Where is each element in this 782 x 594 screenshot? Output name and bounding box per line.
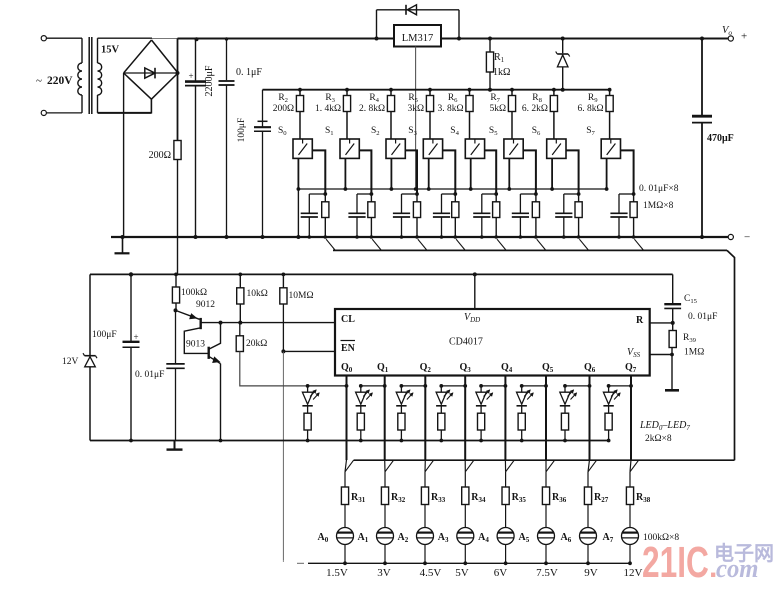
wire bundle diagonal bottom 7 [630, 460, 639, 472]
resistor R2 200Ω [298, 88, 302, 92]
wire bridge plus down to 200 ohm resistor [177, 73, 179, 141]
wire Q5 output column [545, 376, 547, 386]
wire 20k to LED0 line [240, 352, 308, 386]
svg-text:0. 01μF: 0. 01μF [688, 312, 717, 322]
wire Q4 output column [504, 376, 506, 386]
resistor 10M [282, 273, 286, 277]
bridge rectifier D1-D4 [152, 40, 179, 73]
switch S4 [465, 139, 484, 158]
capacitor 100uF top [262, 90, 264, 127]
LED1 [360, 386, 362, 392]
resistor R8 6.2kΩ [552, 88, 556, 92]
wire bundle diagonal bottom 0 [345, 460, 354, 472]
resistor R4 2.8kΩ [389, 88, 393, 92]
regulator A0 [337, 528, 354, 545]
transformer T1 primary winding [81, 38, 83, 63]
wire column to R35 [504, 460, 506, 472]
switch S7 [601, 139, 620, 158]
resistor 1M number 2 [416, 194, 418, 202]
svg-text:3V: 3V [377, 567, 391, 579]
wire Q2 output column [424, 376, 426, 386]
capacitor 0.01uF number 7 [619, 193, 634, 195]
wire A5 to bottom rail [545, 545, 547, 564]
resistor R6 3.8kΩ [468, 88, 472, 92]
resistor 100k [174, 273, 178, 277]
wire R35 to A4 [505, 505, 507, 528]
resistor 200 ohm [174, 141, 181, 160]
output terminal Vo+ [728, 36, 733, 41]
wire switch S2 common to ADJ rail [390, 158, 392, 189]
wire divider top rail [263, 89, 611, 91]
wire LED4 connector [481, 385, 505, 387]
regulator A1 [377, 528, 394, 545]
capacitor 0.01uF number 3 [442, 193, 456, 195]
svg-text:10MΩ: 10MΩ [289, 291, 314, 301]
wire bundle bus top [333, 249, 727, 251]
switch S3 [423, 139, 442, 158]
svg-text:9013: 9013 [186, 340, 205, 350]
svg-text:200Ω: 200Ω [273, 104, 294, 114]
regulator A2 [417, 528, 434, 545]
resistor R9 6.8kΩ [608, 88, 612, 92]
svg-text:9V: 9V [584, 567, 598, 579]
wire R36 to A5 [545, 505, 547, 528]
zener diode 12V [85, 355, 96, 357]
wire bundle diagonal top 6 [579, 239, 588, 250]
wire EN line [283, 350, 335, 352]
switch S2 [386, 139, 405, 158]
wire bundle diagonal top 4 [497, 239, 506, 250]
svg-text:5kΩ: 5kΩ [489, 104, 506, 114]
wire R32 to A1 [384, 505, 386, 528]
wire Q1 output column [384, 376, 386, 386]
switch S5 [504, 139, 523, 158]
wire bundle diagonal top 5 [537, 239, 546, 250]
capacitor 0.01uF number 2 [402, 193, 418, 195]
wire A7 to bottom rail [629, 545, 631, 564]
capacitor 0.01uF number 1 [357, 193, 371, 195]
wire Q7 output column [630, 376, 632, 386]
wire switch S4 common to ADJ rail [470, 158, 472, 189]
wire column to R38 [630, 460, 631, 472]
svg-text:com: com [716, 554, 759, 583]
wire switch S7 output [621, 150, 634, 194]
ground symbol at bridge minus [121, 235, 125, 239]
regulator A3 [457, 528, 474, 545]
transistor Q1 9012 [174, 308, 178, 312]
wire bridge plus up to output rail [177, 39, 179, 74]
resistor 2k number 7 [608, 406, 610, 413]
svg-text:−: − [744, 232, 750, 244]
regulator U1 LM317 [394, 25, 441, 47]
LED3 [440, 386, 442, 392]
wire switch S4 output [485, 150, 497, 194]
LED5 [521, 386, 523, 392]
wire VDD rail to C15 [672, 274, 674, 303]
wire R34 to A3 [464, 505, 466, 528]
svg-text:0. 01μF×8: 0. 01μF×8 [639, 184, 679, 194]
wire LED5 connector [522, 385, 546, 387]
wire switch S3 output [443, 150, 456, 194]
wire switch S6 output [566, 150, 579, 194]
capacitor 0.01uF number 5 [520, 193, 536, 195]
wire bundle diagonal top 0 [326, 239, 335, 250]
wire bundle diagonal bottom 3 [465, 460, 474, 472]
resistor R5 3kΩ [428, 88, 432, 92]
wire R27 to A6 [587, 505, 589, 528]
svg-text:12V: 12V [62, 357, 79, 367]
wire switch S5 common to ADJ rail [508, 158, 510, 189]
wire CL line [201, 322, 335, 324]
wire 200 ohm to VDD rail [177, 160, 179, 275]
resistor 2k number 4 [480, 406, 482, 413]
wire switch S1 common to ADJ rail [344, 158, 346, 189]
svg-text:4.5V: 4.5V [420, 567, 442, 579]
svg-text:100μF: 100μF [92, 330, 117, 340]
ground symbol lower [174, 441, 176, 449]
resistor 10k [238, 273, 242, 277]
wire A1 to bottom rail [384, 545, 386, 564]
wire switch S3 common to ADJ rail [428, 158, 430, 189]
wire A6 to bottom rail [587, 545, 589, 564]
wire bundle diagonal top 1 [372, 239, 381, 250]
LED7 [608, 386, 610, 392]
wire VDD pin [474, 274, 476, 309]
wire ADJ common rail [298, 188, 608, 190]
svg-text:2kΩ×8: 2kΩ×8 [645, 434, 672, 444]
diode D5 across LM317 [376, 10, 378, 39]
svg-text:5V: 5V [455, 567, 469, 579]
svg-text:~: ~ [36, 75, 42, 87]
wire column to R36 [545, 460, 547, 472]
capacitor 470uF [701, 39, 703, 116]
LED2 [400, 386, 402, 392]
wire LED7 connector [609, 385, 631, 387]
svg-text:3kΩ: 3kΩ [407, 104, 424, 114]
resistor R35 [502, 487, 509, 505]
wire Q2 collector [209, 323, 221, 350]
wire bundle diagonal bottom 4 [506, 460, 515, 472]
resistor 1M number 3 [454, 194, 456, 202]
wire A4 to bottom rail [505, 545, 507, 564]
AC input terminal bottom [41, 110, 46, 115]
regulator A5 [538, 528, 555, 545]
resistor R27 [584, 487, 591, 505]
wire switch S1 output [359, 150, 371, 194]
switch S6 [547, 139, 566, 158]
resistor R39 1M [669, 331, 676, 348]
svg-text:12V: 12V [624, 567, 643, 579]
wire bundle diagonal bottom 1 [385, 460, 394, 472]
svg-text:1. 4kΩ: 1. 4kΩ [315, 104, 341, 114]
wire LED2 connector [401, 385, 425, 387]
svg-text:470μF: 470μF [707, 133, 734, 144]
AC input terminal top [41, 36, 46, 41]
resistor 20k [239, 323, 241, 336]
wire AC bottom to transformer [47, 112, 83, 114]
wire switch S5 output [523, 150, 536, 194]
svg-text:1.5V: 1.5V [326, 567, 348, 579]
wire switch S0 common to ADJ rail [297, 158, 299, 189]
capacitor 0.01uF number 4 [482, 193, 496, 195]
svg-text:1MΩ×8: 1MΩ×8 [643, 201, 674, 211]
wire bundle bus bottom [354, 459, 735, 461]
resistor 1M number 1 [370, 194, 372, 202]
resistor R38 [626, 487, 633, 505]
wire switch S0 output [312, 150, 325, 194]
wire bundle diagonal bottom 5 [546, 460, 555, 472]
wire A2 to bottom rail [424, 545, 426, 564]
wire AC top to transformer [47, 37, 83, 39]
svg-text:200Ω: 200Ω [149, 150, 171, 161]
wire bundle diagonal top 3 [456, 239, 465, 250]
svg-text:+: + [741, 31, 747, 43]
regulator A4 [497, 528, 514, 545]
LED4 [480, 386, 482, 392]
wire LED0 connector [308, 385, 347, 387]
svg-text:10kΩ: 10kΩ [247, 289, 268, 299]
wire Q6 output column [589, 376, 591, 386]
svg-text:6. 2kΩ: 6. 2kΩ [522, 104, 548, 114]
wire bundle diagonal top 7 [634, 239, 643, 250]
transformer T1 secondary winding [97, 38, 99, 63]
svg-text:220V: 220V [47, 75, 73, 87]
wire S0 common to 0V rail [297, 189, 299, 237]
svg-text:LED0–LED7: LED0–LED7 [639, 420, 690, 432]
wire Q3 output column [464, 376, 466, 386]
resistor R31 [341, 487, 348, 505]
resistor 1M number 5 [535, 194, 537, 202]
regulator A6 [580, 528, 597, 545]
wire ground rail lower [90, 440, 609, 442]
wire R31 to A0 [344, 505, 346, 528]
capacitor 0.01uF number 6 [564, 193, 579, 195]
wire R38 to A7 [629, 505, 631, 528]
transistor Q2 9013 [207, 347, 209, 359]
resistor R1 1k [489, 39, 491, 53]
resistor R3 1.4kΩ [345, 88, 349, 92]
wire column to R32 [384, 460, 386, 472]
svg-text:CL: CL [341, 314, 355, 325]
svg-text:2200μF: 2200μF [204, 65, 215, 96]
wire A3 to bottom rail [464, 545, 466, 564]
resistor 1M number 7 [633, 194, 635, 202]
LED6 [564, 386, 566, 392]
svg-text:20kΩ: 20kΩ [246, 339, 267, 349]
capacitor 2200uF [195, 39, 197, 82]
svg-text:6. 8kΩ: 6. 8kΩ [578, 104, 604, 114]
resistor R32 [381, 487, 388, 505]
resistor 1M number 4 [495, 194, 497, 202]
wire bundle diagonal bottom 6 [588, 460, 597, 472]
svg-text:LM317: LM317 [402, 33, 434, 44]
switch S1 [340, 139, 359, 158]
resistor R33 [421, 487, 428, 505]
resistor 1M number 6 [578, 194, 580, 202]
regulator A7 [622, 528, 639, 545]
wire bundle diagonal bottom 2 [425, 460, 434, 472]
svg-text:+: + [134, 332, 139, 342]
resistor 1M number 0 [324, 194, 326, 202]
wire switch S7 common to ADJ rail [606, 158, 608, 189]
svg-text:2. 8kΩ: 2. 8kΩ [359, 104, 385, 114]
wire VDD rail 12V [90, 273, 673, 275]
capacitor 0.01uF number 0 [309, 193, 325, 195]
resistor 2k number 0 [307, 406, 309, 413]
IC U2 CD4017 [335, 309, 650, 376]
wire bridge minus down [123, 73, 125, 237]
wire column to R27 [588, 460, 590, 472]
wire column to R34 [464, 460, 466, 472]
wire top rail Vout [178, 38, 395, 40]
wire left branch zener 12V [89, 274, 91, 355]
svg-text:15V: 15V [101, 45, 120, 56]
LED0 [307, 386, 309, 392]
wire LED3 connector [441, 385, 465, 387]
wire switch S2 output [405, 150, 417, 194]
wire switch S6 common to ADJ rail [551, 158, 553, 189]
wire LED6 connector [565, 385, 590, 387]
wire LED1 connector [361, 385, 385, 387]
wire LM317 ADJ [415, 47, 417, 190]
wire column to R31 [345, 460, 347, 472]
capacitor C15 0.01uF [664, 303, 681, 305]
wire secondary bottom to bridge [98, 112, 152, 114]
ground symbol VSS [671, 348, 673, 390]
svg-text:0. 1μF: 0. 1μF [236, 67, 262, 78]
resistor R7 5kΩ [510, 88, 514, 92]
wire Q0 output column [346, 376, 348, 386]
svg-text:EN: EN [341, 343, 356, 354]
svg-text:1MΩ: 1MΩ [684, 348, 704, 358]
svg-text:CD4017: CD4017 [449, 337, 483, 348]
capacitor 0.01uF lower [175, 310, 177, 363]
wire VSS pin [650, 354, 672, 356]
resistor 2k number 2 [400, 406, 402, 413]
svg-text:3. 8kΩ: 3. 8kΩ [437, 104, 463, 114]
svg-text:0. 01μF: 0. 01μF [135, 370, 164, 380]
svg-text:9012: 9012 [196, 300, 215, 310]
wire secondary top to bridge [98, 37, 153, 39]
resistor 2k number 3 [440, 406, 442, 413]
wire 0V rail [111, 236, 728, 238]
svg-text:21IC: 21IC [642, 538, 709, 587]
output terminal Vo- [728, 234, 733, 239]
wire Q1 collector to Q2 base [184, 328, 207, 354]
wire R33 to A2 [424, 505, 426, 528]
transformer T1 core [88, 37, 90, 114]
capacitor 0.1uF [226, 39, 228, 81]
zener diode D6 [562, 39, 564, 54]
wire column to R33 [424, 460, 426, 472]
svg-text:100μF: 100μF [237, 118, 247, 143]
resistor R34 [462, 487, 469, 505]
wire 10M to EN junction down to bottom rail [281, 349, 285, 353]
resistor 2k number 1 [360, 406, 362, 413]
wire bottom common rail [308, 562, 630, 564]
svg-text:+: + [189, 71, 194, 81]
svg-text:100kΩ: 100kΩ [181, 288, 207, 298]
wire bundle diagonal top 2 [418, 239, 427, 250]
wire Q2 emitter to ground [209, 356, 221, 363]
svg-text:1kΩ: 1kΩ [493, 67, 510, 78]
switch S0 [293, 139, 312, 158]
svg-text:R: R [636, 315, 644, 326]
capacitor 100uF lower [129, 272, 133, 276]
resistor 2k number 6 [564, 406, 566, 413]
svg-text:6V: 6V [494, 567, 508, 579]
svg-text:7.5V: 7.5V [536, 567, 558, 579]
wire R pin [650, 322, 673, 324]
resistor R36 [542, 487, 549, 505]
resistor 2k number 5 [521, 406, 523, 413]
wire A0 to bottom rail [344, 545, 346, 564]
